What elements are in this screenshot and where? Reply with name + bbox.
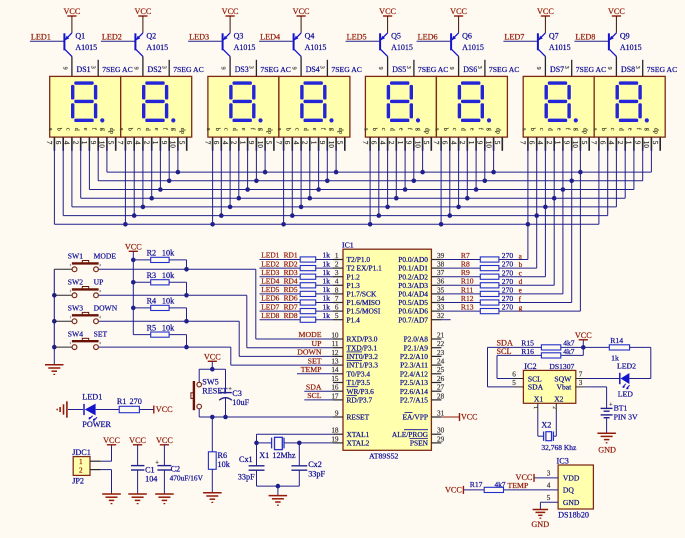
- svg-text:37: 37: [437, 269, 445, 277]
- svg-text:LED8: LED8: [261, 311, 279, 320]
- IC1 pin 16 WR/P3.6: [331, 384, 374, 396]
- resistor RD1 1k (net LED1): [260, 251, 334, 262]
- DS2 pin 6 (b): [125, 128, 134, 151]
- svg-text:2: 2: [387, 141, 395, 145]
- svg-text:27: 27: [437, 384, 445, 392]
- svg-text:9: 9: [220, 67, 226, 70]
- IC1 pin 25 P2.4/A12: [400, 366, 445, 378]
- IC1 pin 1 T2/P1.0: [333, 252, 370, 264]
- svg-text:Q2: Q2: [146, 32, 156, 41]
- svg-text:VCC: VCC: [293, 7, 310, 16]
- IC1 pin 12 INT0/P3.2: [331, 349, 378, 361]
- wire JDC1 pin1 to VCC: [101, 436, 121, 461]
- svg-text:7: 7: [274, 141, 282, 145]
- svg-text:TEMP: TEMP: [301, 365, 322, 374]
- wire net TEMP at IC1: [297, 373, 333, 375]
- DS1 pin 2 (d): [72, 128, 81, 151]
- DS6 pin 5 (dp): [493, 128, 502, 151]
- resistor RD5 1k (net LED5): [260, 285, 334, 296]
- svg-text:DS8: DS8: [621, 65, 635, 74]
- DS5 pin 4 (c): [378, 128, 387, 151]
- IC1 pin 13 INT1/P3.3: [331, 358, 378, 370]
- wire DS6 b drop: [448, 147, 453, 218]
- IC1 pin 11 TXD/P3.1: [332, 340, 378, 352]
- svg-text:e: e: [311, 128, 318, 131]
- wire DS8 a drop: [598, 147, 600, 225]
- wire net DOWN to IC1: [99, 321, 333, 356]
- wire XTAL1 net: [257, 434, 334, 443]
- ground below R6: [203, 469, 222, 502]
- svg-text:X2: X2: [554, 395, 563, 404]
- svg-text:7: 7: [45, 141, 53, 145]
- DS2 pin 4 (c): [134, 128, 143, 151]
- DS4 pin 1 (e): [309, 128, 318, 151]
- svg-text:1: 1: [151, 141, 159, 145]
- svg-text:R2: R2: [147, 249, 157, 258]
- capacitor C3 10uF: [219, 369, 249, 417]
- IC3 pin 3 VDD to VCC: [516, 469, 559, 482]
- svg-text:XTAL2: XTAL2: [347, 439, 370, 448]
- svg-text:P2.1/A9: P2.1/A9: [404, 343, 429, 352]
- svg-text:b: b: [214, 128, 221, 131]
- svg-text:b: b: [600, 128, 607, 131]
- DS8 top pins (9,3): [642, 60, 644, 77]
- resistor R3 10k: [133, 271, 189, 298]
- capacitor Cx1 33pF: [238, 443, 265, 486]
- svg-text:3: 3: [248, 66, 254, 69]
- wire DS2 b drop: [132, 147, 137, 218]
- svg-text:9: 9: [291, 67, 297, 70]
- DS2 pin 2 (d): [143, 128, 152, 151]
- svg-text:Vbat: Vbat: [557, 383, 573, 392]
- svg-text:4: 4: [449, 141, 457, 145]
- IC1 pin 4 P1.3: [333, 278, 360, 290]
- svg-text:PIN 3V: PIN 3V: [614, 413, 638, 422]
- svg-text:10: 10: [256, 141, 264, 149]
- svg-text:5: 5: [335, 312, 339, 320]
- wire base of Q7 (net LED7): [503, 40, 537, 42]
- DS8 pin 9 (f): [634, 128, 643, 151]
- svg-text:1k: 1k: [323, 311, 331, 320]
- svg-text:g: g: [170, 128, 177, 131]
- DS4 top pins (9,3): [326, 60, 328, 77]
- svg-text:a: a: [363, 128, 370, 131]
- IC1 pin 17 RD/P3.7: [331, 392, 372, 404]
- wire DS2 a drop: [123, 147, 128, 227]
- power VCC (RTC): [575, 331, 592, 350]
- DS1 pin 1 (e): [80, 128, 89, 151]
- IC1 pin 23 P2.2/A10: [400, 349, 445, 361]
- DS4 pin 6 (b): [283, 128, 292, 151]
- svg-text:36: 36: [437, 278, 445, 286]
- ground (crystal): [269, 486, 288, 505]
- DS6 designator and type text: [448, 65, 519, 74]
- svg-text:6: 6: [335, 304, 339, 312]
- wire collector of Q7 to DS7 common pin: [544, 56, 546, 76]
- svg-text:13: 13: [331, 358, 339, 366]
- wire DS4 b drop: [290, 147, 295, 218]
- svg-text:4: 4: [536, 141, 544, 145]
- svg-text:VCC: VCC: [445, 486, 462, 495]
- DS8 pin 1 (e): [625, 128, 634, 151]
- svg-text:1: 1: [79, 458, 83, 466]
- svg-text:32: 32: [437, 312, 445, 320]
- wire DS4 c drop: [299, 147, 304, 209]
- 7-seg display DS5 body: [365, 76, 436, 137]
- DS1 designator and type text: [61, 65, 132, 74]
- svg-text:b: b: [519, 261, 523, 269]
- svg-text:e: e: [153, 128, 160, 131]
- svg-text:LED4: LED4: [260, 33, 280, 42]
- svg-text:DS1: DS1: [77, 65, 91, 74]
- wire DS3 b drop: [219, 147, 224, 218]
- svg-text:R1: R1: [117, 397, 127, 406]
- 7-seg display DS7 body: [523, 76, 594, 137]
- wire collector of Q2 to DS2 common pin: [142, 56, 144, 76]
- svg-text:3: 3: [634, 66, 640, 69]
- DS5 pin 5 (dp): [422, 128, 431, 151]
- svg-text:X1: X1: [259, 451, 269, 460]
- wire DS6 g drop: [491, 147, 496, 175]
- svg-text:DS6: DS6: [463, 65, 477, 74]
- svg-text:LED8: LED8: [575, 33, 595, 42]
- svg-text:2: 2: [79, 467, 83, 475]
- svg-text:6: 6: [54, 141, 62, 145]
- connector JDC1 JP2: [72, 448, 101, 486]
- svg-text:3: 3: [563, 66, 569, 69]
- IC1 pin 21 P2.0/A8: [404, 331, 445, 343]
- svg-text:e: e: [398, 128, 405, 131]
- wire DS1 b drop: [62, 147, 64, 216]
- transistor Q2 (A1015 PNP): [134, 32, 168, 57]
- resistor R13 270 (segment g): [441, 303, 580, 314]
- svg-text:2: 2: [458, 141, 466, 145]
- svg-text:P1.4: P1.4: [347, 315, 361, 324]
- svg-text:R5: R5: [147, 323, 157, 332]
- svg-text:5: 5: [493, 141, 501, 145]
- wire DS7 b drop: [534, 147, 539, 268]
- svg-text:7: 7: [203, 141, 211, 145]
- 7-seg display DS3 body: [208, 76, 279, 137]
- svg-text:c: c: [380, 128, 387, 131]
- IC1 pin 32 P0.7/AD7: [398, 312, 444, 324]
- svg-text:9: 9: [476, 141, 484, 145]
- wire base of Q6 (net LED6): [417, 40, 451, 42]
- svg-text:SDA: SDA: [306, 382, 322, 391]
- svg-text:VCC: VCC: [608, 7, 625, 16]
- wire DS7 f drop: [569, 147, 574, 303]
- svg-text:6: 6: [125, 141, 133, 145]
- IC3 pin 4 DQ / resistor R17 4k7 TEMP: [445, 480, 558, 495]
- IC1 pin 27 P2.6/A14: [400, 384, 445, 396]
- wire DS1 f drop: [97, 147, 99, 181]
- wire DS4 a drop: [281, 147, 286, 227]
- svg-text:ALE/PROG: ALE/PROG: [392, 430, 429, 439]
- svg-text:RESET: RESET: [347, 413, 370, 422]
- svg-text:Q6: Q6: [462, 32, 472, 41]
- wire base of Q5 (net LED5): [346, 40, 380, 42]
- DS7 pin 1 (e): [554, 128, 563, 151]
- DS6 pin 6 (b): [441, 128, 450, 151]
- DS7 pin 9 (f): [563, 128, 572, 151]
- wire DS8 d drop: [624, 147, 626, 198]
- wire DS3 f drop: [254, 147, 259, 183]
- svg-text:g: g: [258, 128, 265, 131]
- svg-text:6: 6: [528, 141, 536, 145]
- svg-text:6: 6: [212, 141, 220, 145]
- wire DS7 c drop: [543, 147, 548, 277]
- DS3 pin 5 (dp): [265, 128, 274, 151]
- svg-text:1: 1: [396, 141, 404, 145]
- wire DS2 f drop: [167, 147, 172, 183]
- svg-text:7SEG AC: 7SEG AC: [331, 65, 362, 74]
- svg-text:A1015: A1015: [146, 43, 168, 52]
- svg-text:4: 4: [378, 141, 386, 145]
- IC2 pin 3 (Vbat): [576, 379, 586, 387]
- svg-text:7SEG AC: 7SEG AC: [173, 65, 204, 74]
- IC1 pin 35 P0.4/AD4: [398, 286, 444, 298]
- DS1 pin 5 (dp): [107, 128, 116, 151]
- svg-text:104: 104: [145, 474, 157, 483]
- DS2 pin 7 (a): [116, 128, 125, 151]
- resistor R6 10k: [208, 417, 230, 469]
- IC2 pins X1 X2: [532, 403, 557, 411]
- svg-text:9: 9: [606, 67, 612, 70]
- DS5 digit segments (8.): [387, 81, 420, 122]
- svg-text:P2.3/A11: P2.3/A11: [400, 361, 428, 370]
- IC1 pin 29 PSEN: [410, 435, 445, 447]
- DS1 pin 10 (g): [98, 128, 107, 151]
- svg-text:1: 1: [70, 263, 72, 267]
- svg-text:c: c: [64, 128, 71, 131]
- svg-text:a: a: [205, 128, 212, 131]
- DS2 digit segments (8.): [142, 81, 175, 122]
- wire collector of Q9 to DS8 common pin: [615, 56, 617, 76]
- svg-text:a: a: [118, 128, 125, 131]
- svg-text:b: b: [529, 128, 536, 131]
- svg-text:10k: 10k: [162, 249, 175, 258]
- wire base of Q3 (net LED3): [188, 40, 222, 42]
- svg-text:+: +: [609, 401, 613, 408]
- svg-text:2: 2: [551, 406, 557, 409]
- IC1 pin 6 P1.5/MOSI: [333, 304, 381, 316]
- svg-text:19: 19: [331, 435, 339, 443]
- svg-text:R6: R6: [218, 451, 228, 460]
- svg-text:e: e: [240, 128, 247, 131]
- switch SW2 (UP): [54, 278, 103, 298]
- svg-text:DOWN: DOWN: [94, 304, 118, 313]
- IC IC1 AT89S52 body: [343, 249, 431, 450]
- DS2 designator and type text: [132, 65, 203, 74]
- svg-text:a: a: [520, 128, 527, 131]
- DS5 designator and type text: [377, 65, 448, 74]
- svg-text:R3: R3: [147, 271, 157, 280]
- svg-text:6: 6: [283, 141, 291, 145]
- wire collector of Q3 to DS3 common pin: [229, 56, 231, 76]
- svg-text:2: 2: [99, 315, 101, 319]
- svg-text:dp: dp: [653, 128, 660, 134]
- DS8 pin 7 (a): [590, 128, 599, 151]
- svg-text:LED2: LED2: [102, 33, 122, 42]
- power VCC (after R1): [154, 405, 173, 414]
- svg-text:DOWN: DOWN: [297, 348, 322, 357]
- wire DS5 d drop: [394, 147, 399, 201]
- svg-text:INT0/P3.2: INT0/P3.2: [347, 352, 379, 361]
- svg-text:e: e: [519, 287, 522, 295]
- wire segment-g bus line: [107, 171, 652, 173]
- battery BT1 PIN 3V: [586, 387, 638, 422]
- svg-text:3: 3: [547, 469, 551, 477]
- svg-text:10: 10: [169, 141, 177, 149]
- wire DS6 f drop: [483, 147, 488, 183]
- power VCC (top of Q5): [379, 7, 396, 33]
- svg-text:R16: R16: [521, 347, 534, 356]
- svg-text:4k7: 4k7: [495, 480, 506, 489]
- svg-text:470uF/16V: 470uF/16V: [170, 473, 204, 482]
- svg-text:22: 22: [437, 340, 445, 348]
- svg-text:10uF: 10uF: [232, 398, 249, 407]
- svg-text:6: 6: [370, 141, 378, 145]
- svg-text:WR/P3.6: WR/P3.6: [347, 387, 375, 396]
- DS7 pin 2 (d): [545, 128, 554, 151]
- wire DS6 a drop: [439, 147, 444, 227]
- wire DS7 d drop: [552, 147, 557, 285]
- svg-text:Q5: Q5: [391, 32, 401, 41]
- wire DS1 g drop: [106, 147, 108, 172]
- svg-text:1: 1: [70, 341, 72, 345]
- power VCC (top of Q9): [608, 7, 625, 33]
- DS2 pin 10 (g): [169, 128, 178, 151]
- power VCC (top of Q2): [134, 7, 151, 33]
- wire collector of Q6 to DS6 common pin: [458, 56, 460, 76]
- svg-text:LED1: LED1: [31, 33, 51, 42]
- resistor R2 10k: [133, 249, 189, 272]
- DS1 pin 6 (b): [54, 128, 63, 151]
- DS3 pin 7 (a): [203, 128, 212, 151]
- svg-text:SW5: SW5: [202, 377, 218, 386]
- transistor Q3 (A1015 PNP): [222, 32, 256, 57]
- svg-text:5: 5: [512, 379, 516, 387]
- DS3 digit segments (8.): [229, 81, 262, 122]
- svg-text:33pF: 33pF: [308, 469, 325, 478]
- DS5 pin 2 (d): [387, 128, 396, 151]
- IC1 pin 28 P2.7/A15: [400, 392, 445, 404]
- DS8 pin 6 (b): [599, 128, 608, 151]
- svg-text:SDA: SDA: [528, 383, 544, 392]
- svg-text:c: c: [223, 128, 230, 131]
- svg-text:VCC: VCC: [134, 7, 151, 16]
- svg-text:RXD/P3.0: RXD/P3.0: [347, 335, 378, 344]
- DS2 pin 1 (e): [151, 128, 160, 151]
- DS4 pin 7 (a): [274, 128, 283, 151]
- IC3 pin 5 GND to ground: [531, 494, 558, 529]
- svg-text:1: 1: [309, 141, 317, 145]
- svg-text:3: 3: [319, 66, 325, 69]
- resistor R7 270 (segment a): [441, 251, 528, 262]
- wire DS1 c drop: [71, 147, 73, 207]
- capacitor C2 470uF/16V: [155, 436, 203, 504]
- wire pin 32 stub: [441, 319, 450, 321]
- svg-text:1: 1: [532, 406, 538, 409]
- wire DS3 c drop: [228, 147, 233, 209]
- svg-text:25: 25: [437, 366, 445, 374]
- svg-text:2: 2: [301, 141, 309, 145]
- wire segment-e bus line: [89, 189, 634, 191]
- svg-text:Q3: Q3: [234, 32, 244, 41]
- DS3 top pins (9,3): [255, 60, 257, 77]
- svg-text:c: c: [538, 128, 545, 131]
- svg-text:Q1: Q1: [75, 32, 85, 41]
- DS8 pin 4 (c): [607, 128, 616, 151]
- svg-text:4: 4: [134, 141, 142, 145]
- wire DS6 d drop: [465, 147, 470, 201]
- svg-text:9: 9: [132, 67, 138, 70]
- svg-text:VDD: VDD: [563, 473, 580, 482]
- crystal X1 12Mhz: [254, 437, 301, 460]
- IC1 pin 2 T2 EX/P1.1: [333, 261, 382, 273]
- DS4 designator and type text: [291, 65, 362, 74]
- wire base of Q1 (net LED1): [30, 40, 64, 42]
- svg-text:VCC: VCC: [156, 405, 173, 414]
- DS7 digit segments (8.): [545, 81, 578, 122]
- svg-text:LED6: LED6: [418, 33, 438, 42]
- resistor RD6 1k (net LED6): [260, 294, 334, 305]
- svg-text:1: 1: [625, 141, 633, 145]
- DS5 pin 1 (e): [396, 128, 405, 151]
- switch SW1 (MODE): [54, 252, 116, 272]
- svg-text:dp: dp: [337, 128, 344, 134]
- LED LED2: [586, 347, 651, 398]
- DS4 pin 9 (f): [318, 128, 327, 151]
- svg-text:3: 3: [335, 269, 339, 277]
- svg-text:A1015: A1015: [462, 43, 484, 52]
- svg-text:8: 8: [335, 286, 339, 294]
- 7-seg display DS8 body: [594, 76, 665, 137]
- wire net SET to IC1: [99, 347, 333, 365]
- svg-text:VCC: VCC: [103, 436, 120, 445]
- svg-text:7: 7: [335, 295, 339, 303]
- wire DS2 e drop: [158, 147, 163, 192]
- resistor R5 10k: [133, 323, 189, 349]
- svg-text:g: g: [573, 128, 580, 131]
- svg-text:2: 2: [545, 141, 553, 145]
- svg-text:1: 1: [80, 141, 88, 145]
- svg-text:R13: R13: [461, 303, 474, 312]
- svg-text:P2.6/A14: P2.6/A14: [400, 387, 428, 396]
- svg-text:P2.5/A13: P2.5/A13: [400, 378, 428, 387]
- DS4 pin 2 (d): [301, 128, 310, 151]
- svg-text:VCC: VCC: [63, 7, 80, 16]
- wire crystal ground rail: [257, 484, 300, 489]
- svg-text:33: 33: [437, 304, 445, 312]
- svg-text:X1: X1: [534, 395, 543, 404]
- svg-text:12Mhz: 12Mhz: [272, 451, 296, 460]
- svg-text:c: c: [294, 128, 301, 131]
- svg-text:a: a: [276, 128, 283, 131]
- DS1 digit segments (8.): [71, 81, 104, 122]
- svg-text:3: 3: [579, 379, 583, 387]
- switch SW5 RESET: [191, 369, 227, 417]
- wire net MODE to IC1: [99, 269, 333, 339]
- svg-text:IC3: IC3: [557, 456, 569, 465]
- svg-text:R14: R14: [610, 336, 623, 345]
- svg-text:P2.0/A8: P2.0/A8: [404, 335, 429, 344]
- wire segment-d bus line: [81, 197, 626, 199]
- DS3 pin 6 (b): [212, 128, 221, 151]
- svg-text:GND: GND: [563, 498, 580, 507]
- DS6 pin 10 (g): [484, 128, 493, 151]
- svg-text:A1015: A1015: [391, 43, 413, 52]
